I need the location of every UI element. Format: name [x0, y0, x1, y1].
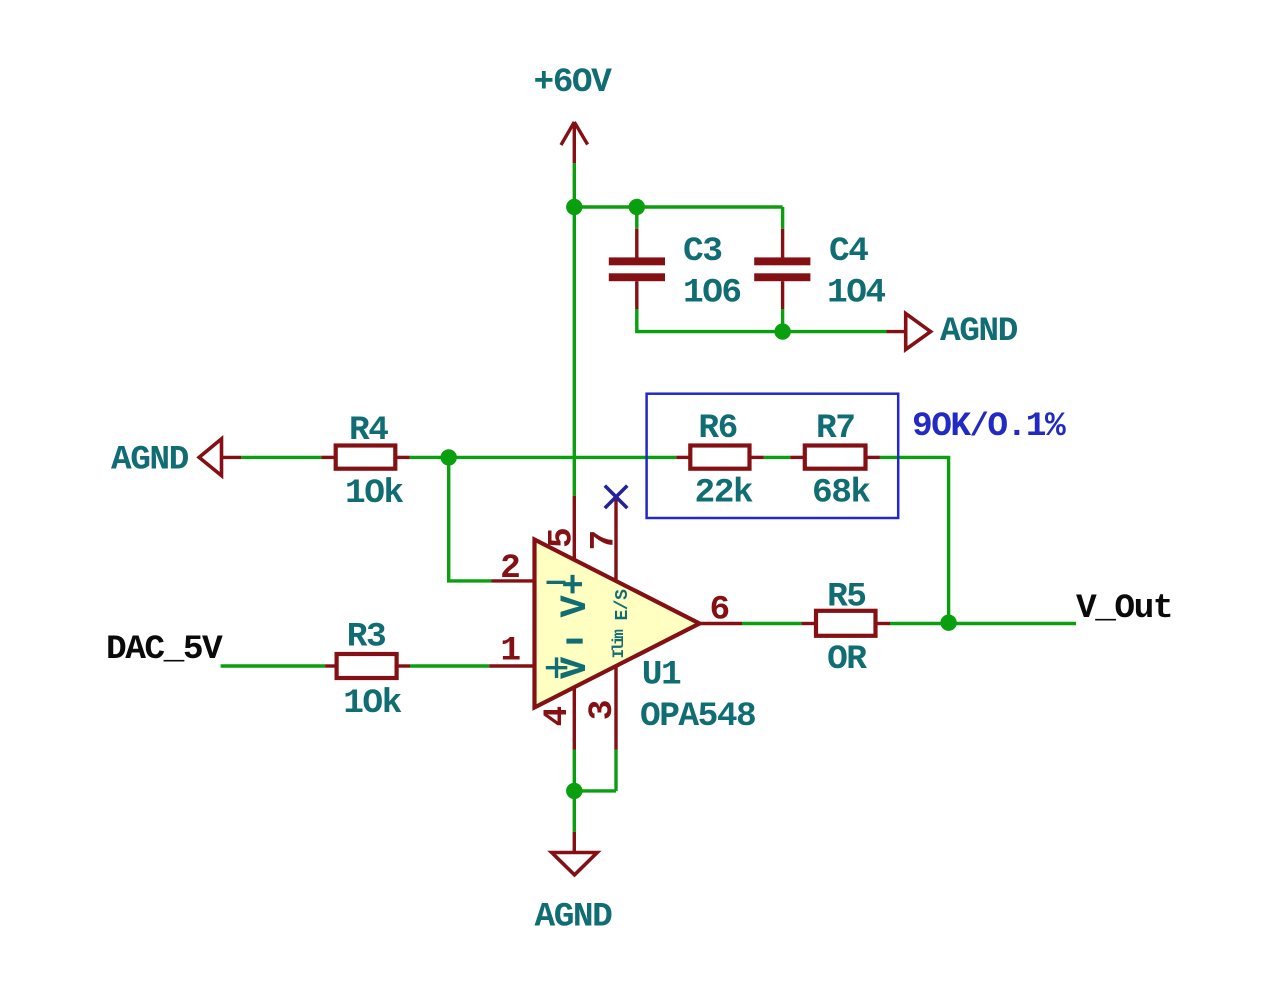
- svg-text:9OK/O.1%: 9OK/O.1%: [912, 407, 1066, 446]
- svg-text:U1: U1: [642, 656, 681, 695]
- svg-text:AGND: AGND: [940, 312, 1018, 351]
- svg-text:+6OV: +6OV: [534, 63, 613, 102]
- svg-text:V_Out: V_Out: [1076, 589, 1172, 628]
- svg-text:R7: R7: [816, 409, 854, 448]
- svg-text:7: 7: [584, 531, 623, 550]
- svg-text:V+: V+: [555, 573, 597, 617]
- svg-text:5: 5: [542, 529, 581, 548]
- svg-text:R5: R5: [827, 577, 865, 616]
- svg-text:1Ok: 1Ok: [345, 474, 403, 513]
- svg-text:DAC_5V: DAC_5V: [106, 630, 223, 669]
- svg-text:68k: 68k: [812, 474, 870, 513]
- svg-text:1Ok: 1Ok: [343, 684, 401, 723]
- svg-text:R6: R6: [698, 409, 736, 448]
- svg-text:OPA548: OPA548: [640, 697, 755, 736]
- svg-text:R4: R4: [349, 411, 388, 450]
- svg-text:1O4: 1O4: [827, 274, 885, 313]
- svg-text:1: 1: [500, 632, 520, 671]
- svg-text:22k: 22k: [695, 474, 753, 513]
- svg-text:Ilim: Ilim: [610, 629, 628, 659]
- svg-text:6: 6: [710, 591, 729, 630]
- svg-text:V: V: [555, 656, 597, 679]
- svg-text:1O6: 1O6: [683, 274, 741, 313]
- svg-text:R3: R3: [347, 617, 385, 656]
- svg-text:AGND: AGND: [535, 897, 613, 936]
- svg-text:OR: OR: [827, 640, 867, 679]
- svg-text:3: 3: [583, 701, 622, 720]
- svg-text:AGND: AGND: [111, 441, 189, 480]
- svg-text:E/S: E/S: [613, 589, 633, 621]
- svg-text:C4: C4: [829, 232, 868, 271]
- svg-text:4: 4: [538, 707, 577, 727]
- svg-text:2: 2: [500, 549, 519, 588]
- svg-text:C3: C3: [683, 232, 721, 271]
